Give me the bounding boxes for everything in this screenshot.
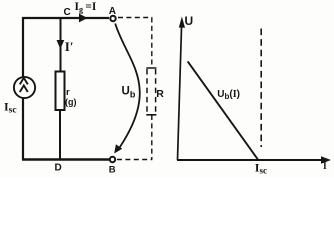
graph [177,17,331,164]
svg-text:C: C [64,7,71,18]
arrow I' on middle branch [57,40,65,49]
svg-text:Isc: Isc [4,99,17,115]
resistor r(g) body [56,72,65,111]
wire middle branch upper [60,18,62,72]
svg-text:U: U [185,14,194,28]
dashed wire A to R (top) [118,17,152,19]
graph I axis arrowhead [321,156,331,163]
svg-text:A: A [109,6,116,17]
dashed wire right upper [151,18,153,69]
resistor R dashed body [146,68,156,115]
wire left [22,17,24,159]
current source chevron 2 [20,85,28,92]
node A circle [110,16,115,21]
svg-text:I′: I′ [65,39,74,54]
U_b arc arrowhead [114,144,122,153]
graph U axis arrowhead [179,17,185,28]
svg-text:R: R [156,88,164,100]
wire bottom (D to B) [22,158,109,160]
svg-text:Ig =I: Ig =I [75,1,97,14]
current source chevron 1 [20,78,28,85]
wire top (C to A) [22,17,109,19]
svg-text:B: B [109,165,116,176]
svg-text:D: D [55,163,62,174]
dashed wire right lower [151,115,153,160]
node B circle [110,157,115,162]
graph I axis [177,159,323,161]
svg-text:(g): (g) [65,97,77,107]
svg-text:Ub: Ub [122,85,136,99]
svg-text:Ub(I): Ub(I) [217,89,240,101]
wire middle branch lower [59,110,61,160]
graph dashed vertical at I_sc [260,29,262,148]
arrow Ig on top wire [79,14,88,23]
svg-text:Isc: Isc [255,161,267,176]
U_b arc from A to B [115,24,140,151]
graph load line U_b(I) [188,61,259,160]
current source I_sc circle [14,77,35,98]
dashed wire B to R (bottom) [117,159,152,161]
graph U axis [178,21,182,160]
svg-text:I: I [323,162,327,172]
